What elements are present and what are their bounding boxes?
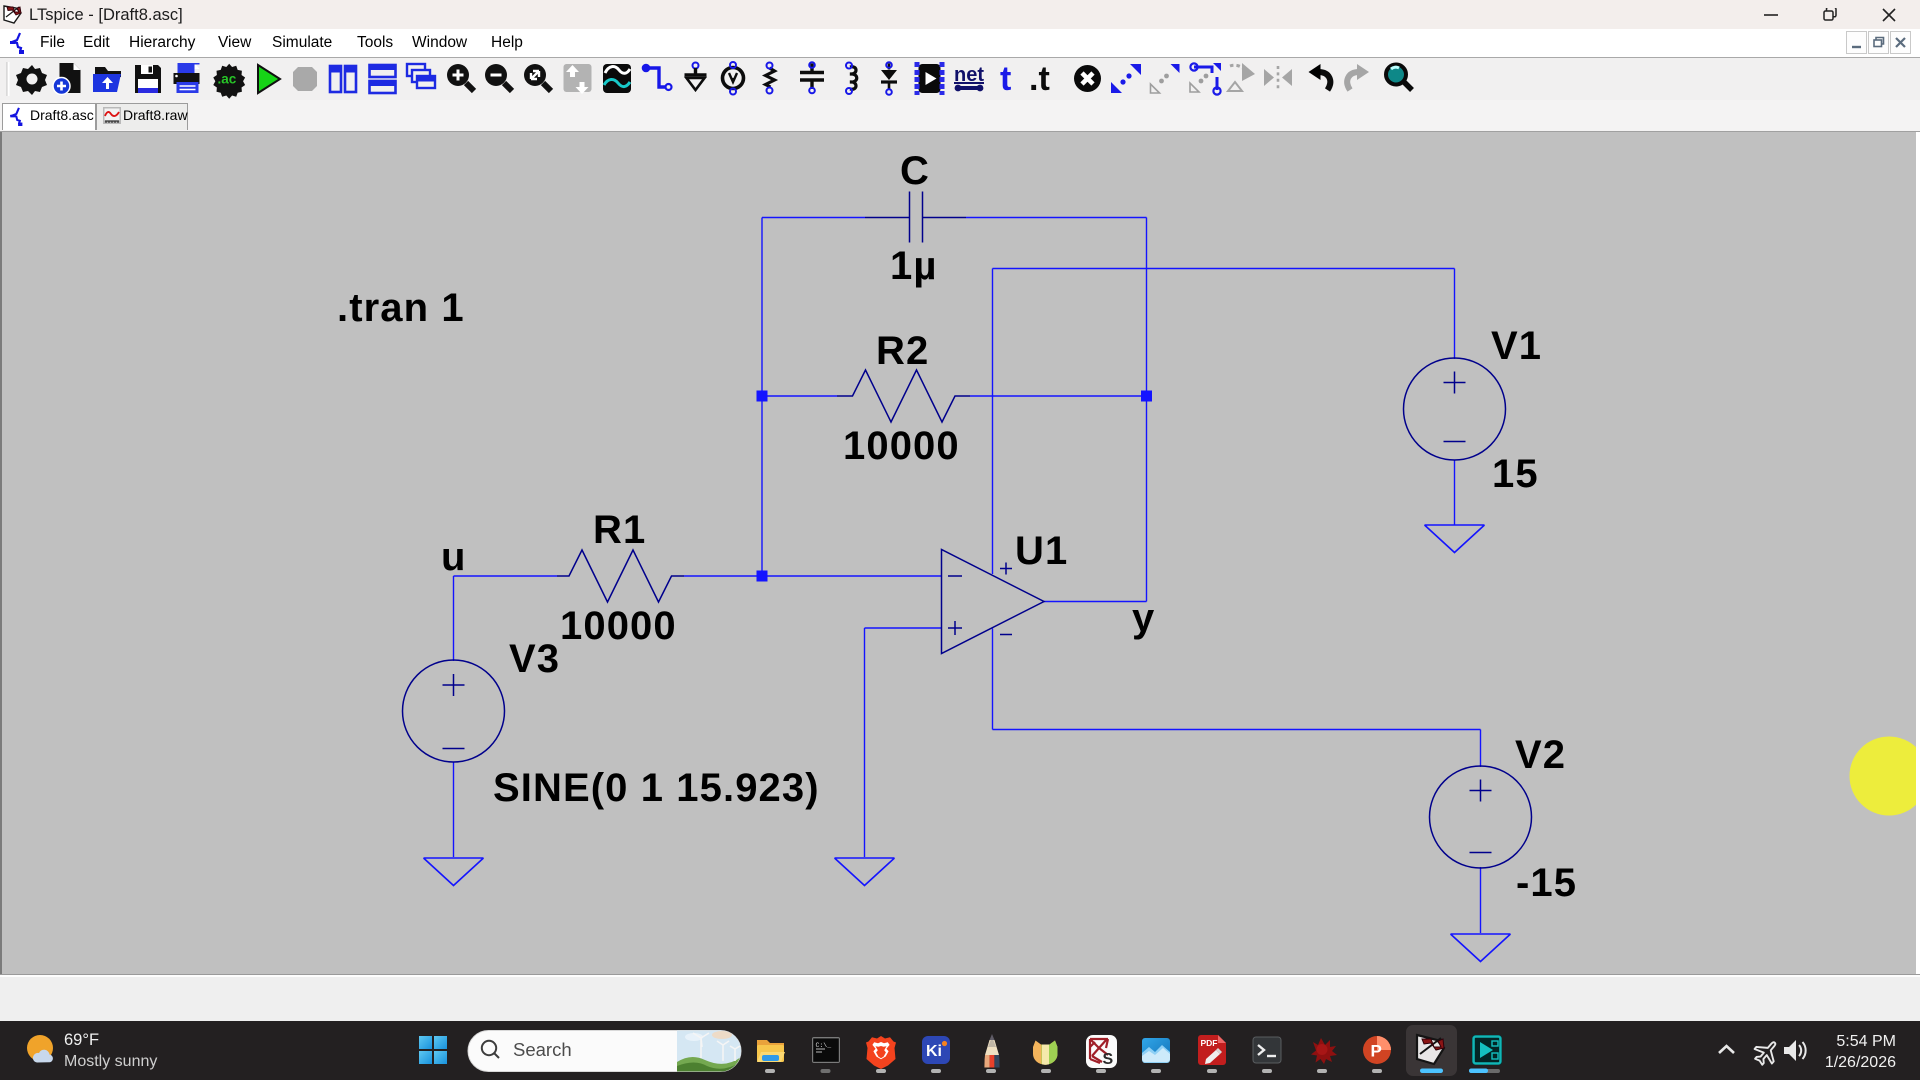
voltage source V2 circle <box>1430 766 1532 868</box>
svg-text:Mostly sunny: Mostly sunny <box>64 1053 157 1070</box>
op-amp inverting input marker <box>948 575 962 577</box>
PowerPoint <box>1363 1036 1391 1064</box>
svg-text:V3: V3 <box>509 637 560 681</box>
Brave <box>866 1036 896 1069</box>
resistor R2 symbol <box>837 370 970 422</box>
svg-text:-15: -15 <box>1516 861 1577 905</box>
svg-text:10000: 10000 <box>560 604 677 648</box>
svg-text:net: net <box>954 64 984 86</box>
SapphireSpice S <box>1086 1035 1117 1068</box>
start button <box>419 1036 447 1064</box>
wire R2 row right <box>970 395 1147 397</box>
svg-text:.t: .t <box>1029 60 1050 98</box>
search magnifier <box>482 1041 496 1055</box>
tab row <box>0 100 1920 132</box>
svg-text:U1: U1 <box>1015 529 1068 573</box>
schematic area <box>0 132 1920 974</box>
wire R2 row left <box>762 395 837 397</box>
yellow click-highlight circle <box>1850 737 1920 816</box>
ground under V3 <box>424 858 484 886</box>
svg-text:5:54 PM: 5:54 PM <box>1836 1033 1896 1050</box>
Terminal (cmd) <box>812 1037 840 1063</box>
svg-text:y: y <box>1132 596 1155 640</box>
resistor R1 symbol <box>557 550 684 602</box>
File Explorer <box>757 1040 785 1062</box>
op-amp V- marker <box>1000 634 1012 636</box>
ground under V2 <box>1451 934 1511 962</box>
svg-text:PDF: PDF <box>1201 1038 1218 1048</box>
svg-text:C: C <box>900 149 930 193</box>
right scrollbar strip <box>1916 132 1920 974</box>
svg-text:15: 15 <box>1492 452 1539 496</box>
svg-text:Search: Search <box>513 1039 572 1060</box>
capacitor C symbol <box>865 192 966 243</box>
node square at R2 right <box>1141 391 1152 402</box>
wire V+ rail horizontal y=267 <box>993 268 1455 270</box>
V2 minus <box>1470 852 1492 854</box>
V1 plus <box>1444 372 1466 394</box>
svg-text:C:\_: C:\_ <box>816 1042 832 1049</box>
V3 plus <box>443 674 465 696</box>
KiCad <box>922 1036 950 1064</box>
ground under V1 <box>1425 525 1485 553</box>
toolbar <box>0 58 1920 100</box>
wire right vertical x=1146 <box>1146 218 1148 602</box>
wire op-amp noninverting input from ground riser <box>865 627 942 629</box>
weather icon <box>27 1035 53 1061</box>
node square at R2 left <box>757 391 768 402</box>
svg-text:1µ: 1µ <box>890 244 938 288</box>
svg-text:10000: 10000 <box>843 424 960 468</box>
wire R1 to node <box>684 575 762 577</box>
op-amp V+ marker <box>1000 563 1012 575</box>
svg-text:.tran 1: .tran 1 <box>337 286 465 330</box>
wire V+ drop into op-amp <box>992 269 994 575</box>
V2 plus <box>1470 780 1492 802</box>
search pill <box>468 1031 741 1072</box>
ground under + input riser <box>835 858 895 886</box>
Cat app <box>1033 1041 1058 1065</box>
svg-text:P: P <box>1371 1042 1382 1061</box>
wire V1 bottom to ground <box>1454 460 1456 525</box>
wire V1 top lead <box>1454 269 1456 360</box>
LTspice active <box>1406 1025 1457 1076</box>
Windows Terminal <box>1253 1037 1281 1063</box>
node square at R1 output <box>757 571 768 582</box>
GIMP <box>1311 1038 1337 1064</box>
V1 minus <box>1444 441 1466 443</box>
wire V- rail to V2 <box>993 729 1481 731</box>
tray chevron <box>1719 1046 1734 1053</box>
wire V2 top lead <box>1480 730 1482 768</box>
menu bar <box>0 29 1920 58</box>
status bar <box>0 974 1920 1022</box>
VSDC <box>1472 1035 1502 1065</box>
wire u node to R1 <box>454 575 558 577</box>
wire V3 bottom to ground <box>453 762 455 857</box>
svg-text:1/26/2026: 1/26/2026 <box>1825 1054 1896 1071</box>
wire V3 top lead <box>453 576 455 661</box>
voltage source V1 circle <box>1404 358 1506 460</box>
svg-text:.ac: .ac <box>218 72 237 87</box>
wire V2 bottom to ground <box>1480 867 1482 933</box>
op-amp U1 triangle <box>942 550 1045 654</box>
left window border <box>0 132 2 974</box>
svg-text:V2: V2 <box>1515 733 1566 777</box>
svg-text:69°F: 69°F <box>64 1031 99 1049</box>
wire V- drop from op-amp <box>992 629 994 730</box>
svg-text:R1: R1 <box>593 508 646 552</box>
svg-text:t: t <box>1000 60 1011 98</box>
running indicator bars <box>765 1069 1500 1074</box>
wire left vertical x=762 <box>761 218 763 577</box>
Pencil app <box>984 1034 999 1068</box>
op-amp noninverting input marker <box>948 621 962 635</box>
Photos <box>1142 1038 1170 1063</box>
wire op-amp output <box>1044 601 1147 603</box>
wire node to op-amp inverting input <box>762 575 942 577</box>
wire capacitor to top-right corner <box>966 217 1147 219</box>
wire ground riser for + input <box>864 628 866 857</box>
svg-text:Ki: Ki <box>926 1043 942 1060</box>
svg-text:R2: R2 <box>876 329 929 373</box>
speaker <box>1784 1040 1806 1061</box>
svg-text:u: u <box>441 535 467 579</box>
V3 minus <box>443 748 465 750</box>
window title bar <box>0 0 1920 29</box>
svg-text:SINE(0 1 15.923): SINE(0 1 15.923) <box>493 766 820 810</box>
PDF XChange <box>1198 1035 1226 1065</box>
taskbar <box>0 1021 1920 1080</box>
wire top-left horizontal to capacitor <box>762 217 865 219</box>
svg-text:V1: V1 <box>1491 324 1542 368</box>
svg-text:S: S <box>1103 1051 1114 1068</box>
airplane <box>1750 1035 1783 1069</box>
voltage source V3 circle <box>403 660 505 762</box>
